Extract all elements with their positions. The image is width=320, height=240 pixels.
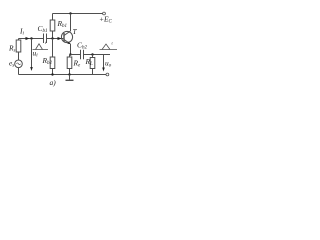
wire Rs to source: [18, 52, 20, 60]
wire Cb2 to output: [84, 54, 111, 56]
wire source to ground rail: [18, 68, 20, 75]
waveform output sketch: [100, 44, 118, 50]
svg-text:RL: RL: [85, 57, 94, 67]
node Rb1-base junction: [51, 37, 53, 39]
wire Rb2 bottom stub: [52, 69, 54, 75]
node emitter output junction: [69, 53, 71, 55]
transistor collector diagonal: [64, 31, 71, 36]
resistor Rb1: [50, 20, 55, 31]
wire input from Rs to Cb1: [19, 38, 44, 40]
svg-text:Ii: Ii: [19, 27, 24, 37]
resistor Re: [67, 57, 72, 69]
transistor T circle: [61, 31, 72, 42]
node Re-ground junction: [68, 73, 70, 75]
wire top supply rail: [53, 13, 103, 15]
svg-text:Rb1: Rb1: [57, 19, 68, 29]
svg-text:Cb1: Cb1: [38, 24, 48, 34]
svg-text:ui: ui: [33, 49, 39, 59]
resistor Rs: [16, 40, 21, 52]
wire bottom rail: [19, 74, 107, 76]
svg-text:uo: uo: [105, 59, 112, 69]
capacitor Cb1: [44, 34, 47, 44]
wire Rb1 bottom stub: [52, 31, 54, 39]
svg-text:T: T: [73, 27, 78, 36]
wire base node down to Rb2: [52, 39, 54, 58]
arrow voltage ui: [31, 39, 33, 69]
wire Re top stub: [69, 55, 71, 58]
resistor Rb2: [50, 57, 55, 69]
wire emitter down: [70, 44, 72, 55]
capacitor Cb2: [81, 50, 84, 59]
transistor emitter diagonal: [64, 40, 71, 45]
terminal output bottom: [106, 73, 109, 76]
node input ui junction: [30, 37, 32, 39]
svg-text:a): a): [50, 78, 57, 87]
svg-text:+EC: +EC: [99, 15, 113, 25]
wire RL bottom stub: [92, 69, 94, 75]
resistor RL: [90, 58, 95, 69]
source es: [15, 60, 23, 68]
ground: [69, 75, 71, 80]
svg-text:Cb2: Cb2: [77, 41, 87, 51]
arrow emitter: [67, 42, 70, 44]
wire Rs top stub: [18, 39, 20, 41]
transistor base bar: [63, 33, 65, 42]
node collector-rail junction: [69, 12, 71, 14]
svg-text:es: es: [9, 59, 14, 69]
wire Rb1 top stub: [52, 14, 54, 21]
wire Re bottom stub: [69, 69, 71, 75]
wire RL top stub: [92, 55, 94, 58]
wire emitter node to Cb2: [71, 54, 81, 56]
terminal +EC: [103, 12, 106, 15]
arrow base current: [58, 37, 62, 40]
svg-text:Rs: Rs: [8, 44, 16, 54]
arrow voltage uo: [103, 55, 105, 70]
node Rb2-ground junction: [51, 73, 53, 75]
arrow input current: [26, 37, 30, 40]
wire Cb1 to base: [47, 38, 64, 40]
svg-text:t: t: [112, 41, 114, 46]
wire collector up: [70, 14, 72, 32]
node RL top junction: [91, 53, 93, 55]
svg-text:Re: Re: [73, 59, 82, 69]
waveform input sketch: [33, 44, 49, 50]
